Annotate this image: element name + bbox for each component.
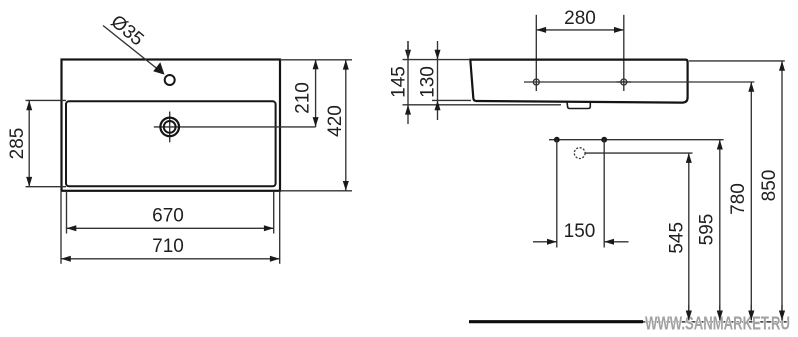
dim 710 extension right [279, 192, 281, 264]
svg-text:420: 420 [325, 105, 346, 137]
svg-text:670: 670 [152, 206, 184, 227]
dim 280 arrow left [536, 27, 546, 33]
drain dashed circle [574, 148, 585, 159]
tap hole marker left (side view) [533, 79, 539, 85]
faucet outer circle [160, 118, 179, 137]
dim 420 arrow up [343, 60, 349, 70]
top edge extension to 420 [280, 59, 352, 61]
dim 130 arrow top (outside, pointing down) [435, 50, 441, 60]
dim 285 extension bottom tick [26, 186, 67, 188]
dim 285 line [28, 100, 30, 186]
dim 280 line [536, 29, 624, 31]
dim 670 extension right [273, 192, 275, 234]
tap hole marker right (side view) [621, 79, 627, 85]
dim 280 extension left (through profile) [535, 15, 537, 91]
svg-text:780: 780 [728, 183, 749, 215]
dim 850 arrow bottom overlay [779, 305, 785, 320]
svg-text:280: 280 [564, 8, 596, 29]
svg-text:285: 285 [7, 128, 28, 160]
dim 210 arrow up [313, 60, 319, 70]
dim 145 bottom extension [403, 104, 562, 106]
dim 710 extension left [60, 192, 62, 264]
top edge extension right to 850 [689, 60, 785, 62]
dim 710 arrow right [270, 256, 280, 262]
dim 420 line [345, 60, 347, 191]
basin side profile [470, 60, 687, 103]
tap hole marker left tick [524, 81, 544, 83]
dim 595 arrow top [717, 140, 723, 150]
dim 130 line [437, 41, 439, 120]
dim 595 arrow bottom overlay [717, 305, 723, 320]
dim 545 arrow bottom overlay [686, 305, 692, 320]
outer basin rectangle [62, 60, 281, 191]
svg-text:WWW.SANMARKET.RU: WWW.SANMARKET.RU [645, 314, 790, 334]
dim 710 arrow left [61, 256, 71, 262]
dim 710 line [61, 258, 280, 260]
dim 280 arrow right [614, 27, 624, 33]
dim 150 line left shaft [533, 241, 557, 243]
dim 670 arrow left [67, 225, 77, 231]
dim 850 arrow top [779, 61, 785, 71]
dim 595 line [719, 140, 721, 321]
svg-text:130: 130 [418, 66, 439, 98]
svg-text:210: 210 [293, 82, 314, 114]
dim 545 arrow top [686, 153, 692, 163]
dim 420 arrow down [343, 181, 349, 191]
dim 280 extension right (through profile) [623, 15, 625, 91]
svg-text:145: 145 [389, 66, 410, 98]
dim 285 arrow up [26, 100, 32, 110]
inner basin rectangle [66, 101, 276, 186]
dim 150 extension left [556, 140, 558, 248]
dim 145 line [407, 41, 409, 124]
dim 150 extension right [603, 140, 605, 248]
dim 780 line [750, 82, 752, 320]
fixing dot left [554, 137, 560, 143]
dim 850 line [781, 61, 783, 320]
drain line to 545 [585, 152, 692, 154]
dim 670 extension left [66, 192, 68, 234]
bottom edge extension to 420 [280, 190, 352, 192]
dim 595 arrow bottom [717, 311, 723, 321]
dim 780 arrow bottom overlay [748, 305, 754, 320]
dim 285 extension top tick [26, 99, 67, 101]
dim 150 arrow left (outside, pointing right) [547, 239, 557, 245]
faucet centre cross horizontal / centreline to 210 dim [154, 126, 316, 128]
floor line thin [643, 321, 790, 323]
floor line thick [469, 320, 643, 323]
fixing holes line [549, 139, 724, 141]
drain notch [567, 102, 590, 109]
dim 210 line [315, 60, 317, 127]
dim 210 arrow down [313, 117, 319, 127]
dim 130 arrow bottom (outside, pointing up) [435, 100, 441, 110]
dim 130 bottom extension [432, 99, 471, 101]
dim 670 arrow right [264, 225, 274, 231]
svg-text:595: 595 [697, 214, 718, 246]
dim 545 line [688, 153, 690, 320]
dim 545 arrow bottom [686, 311, 692, 321]
dim 145 arrow top (outside, pointing down) [405, 50, 411, 60]
svg-text:850: 850 [759, 170, 780, 202]
dim 850 arrow bottom [779, 311, 785, 321]
top edge extension left of profile [403, 59, 471, 61]
leader line O35 [103, 26, 160, 72]
tap hole circle [165, 75, 175, 85]
tap centreline to 780 dim [544, 81, 755, 83]
leader arrowhead [153, 62, 164, 74]
faucet centre cross vertical [169, 112, 171, 143]
dim 150 line right shaft [604, 241, 628, 243]
tap hole marker right tick [617, 81, 632, 83]
svg-text:545: 545 [667, 222, 688, 254]
dim 780 arrow bottom [748, 311, 754, 321]
svg-text:150: 150 [564, 221, 596, 242]
faucet inner circle [164, 121, 176, 133]
dim 285 arrow down [26, 177, 32, 187]
svg-text:710: 710 [152, 236, 184, 257]
fixing dot right [601, 137, 607, 143]
dim 670 line [67, 227, 274, 229]
dim 780 arrow top [748, 82, 754, 92]
dim 145 arrow bottom (outside, pointing up) [405, 105, 411, 115]
dim 150 arrow right (outside, pointing left) [604, 239, 614, 245]
dim 145 gap mask top [407, 41, 409, 60]
